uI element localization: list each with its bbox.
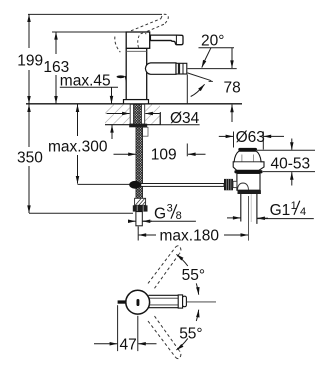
G3/8 threaded tube [136, 212, 142, 226]
dimension 163 [55, 32, 57, 104]
tailpipe [240, 194, 242, 222]
threaded shank [130, 104, 145, 124]
pop-up knob on body [117, 75, 125, 78]
cartridge housing [126, 32, 150, 48]
svg-text:20°: 20° [201, 32, 224, 49]
svg-text:47: 47 [120, 337, 137, 354]
Ø63 dimension [219, 135, 284, 137]
handle (plan) [149, 295, 179, 307]
47 extension lines [117, 305, 119, 351]
dashed cartridge inside housing [138, 33, 147, 47]
mounting nut [129, 124, 147, 128]
svg-text:55°: 55° [182, 267, 205, 284]
svg-text:3: 3 [167, 202, 173, 214]
dashed raised lever [115, 14, 169, 52]
extension line hose end (350 bottom) [29, 212, 133, 214]
deck bottom line [105, 124, 160, 126]
aerator swivel arc arrow [191, 87, 203, 97]
pop-up linkage rod [141, 184, 224, 187]
Ø63 extension lines [233, 132, 235, 148]
faucet body circle (plan) [126, 290, 150, 314]
svg-text:199: 199 [17, 53, 43, 70]
40-53 dimension [291, 139, 293, 186]
55 deg arc upper [176, 254, 198, 294]
pop-up rod extension (from max.300) [78, 183, 130, 185]
tube centerline tail [137, 226, 139, 230]
dashed handle rotated down 55 [148, 316, 181, 359]
faucet body [126, 48, 147, 99]
dimension 109 [114, 153, 206, 155]
dimension max.45 (deck thickness arrows) [111, 87, 114, 139]
svg-text:40-53: 40-53 [271, 155, 311, 172]
dimension 199 [28, 14, 30, 103]
extension line top of raised lever (199) [28, 13, 162, 15]
aerator [176, 63, 187, 74]
dimension 47 [94, 343, 157, 345]
svg-text:max.180: max.180 [160, 227, 220, 244]
40-53 extension lines [257, 149, 315, 151]
55 deg arc lower [176, 310, 198, 350]
G3/8 hex nut [133, 205, 148, 211]
deck cross-section hatching [105, 105, 160, 125]
dimension max.180 [137, 227, 139, 241]
rod connector knob [129, 181, 141, 189]
dimension 350 [28, 104, 30, 213]
extension line faucet top (163) [52, 31, 126, 33]
center slot [137, 299, 140, 306]
small fitting right of hose [142, 127, 148, 136]
clamp knob (knurled) [224, 179, 233, 190]
G3/8 label with arrows and underline [128, 220, 152, 222]
spout [145, 63, 176, 74]
deck right edge [159, 112, 161, 125]
svg-text:4: 4 [300, 206, 306, 218]
svg-text:78: 78 [224, 79, 241, 96]
G1 1/4 label with arrows and underline [227, 217, 268, 219]
svg-text:109: 109 [151, 147, 177, 164]
svg-text:8: 8 [176, 210, 182, 222]
base plinth [124, 100, 149, 104]
20 deg left leg arrow [205, 48, 212, 61]
waste body bottom band [238, 190, 261, 194]
deck top surface line [26, 103, 242, 105]
body seam line [126, 50, 147, 52]
Ø34 dimension [107, 114, 161, 125]
svg-text:max.300: max.300 [48, 139, 108, 156]
svg-text:Ø63: Ø63 [236, 129, 265, 146]
svg-text:350: 350 [17, 150, 43, 167]
svg-text:G1: G1 [270, 202, 291, 219]
svg-text:G: G [154, 206, 166, 223]
spout outlet extension line [188, 68, 237, 70]
dashed handle rotated up 55 [148, 246, 181, 289]
dimension 78 [231, 48, 233, 122]
handle centerline [187, 301, 216, 303]
waste body [237, 173, 260, 190]
lever tip seam [175, 35, 177, 44]
waste flange bell [233, 151, 264, 170]
spout tip extension line (vertical) [186, 75, 188, 104]
supply hose (braided) [136, 127, 143, 199]
clamp stem [233, 181, 237, 187]
flange seal ring (black band) [234, 170, 262, 173]
internal ball joint arc [238, 183, 249, 190]
spout stub (plan) [118, 300, 127, 303]
hose ferrule [135, 198, 146, 205]
tailpipe centerline [248, 196, 250, 241]
pop-up waste cap [238, 148, 257, 151]
aerator 20 deg ray [187, 73, 211, 81]
lever handle [150, 35, 183, 45]
svg-text:55°: 55° [179, 325, 202, 342]
dimension max.300 [77, 104, 79, 183]
